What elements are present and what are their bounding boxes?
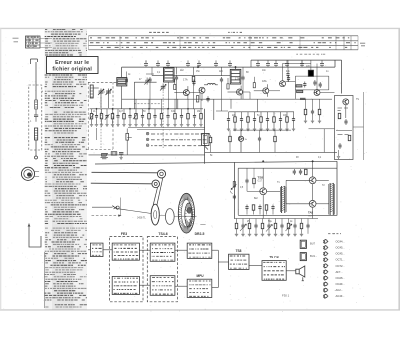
wire (312, 161, 314, 177)
resistor R5 (111, 113, 114, 119)
wire pointer line (120, 198, 122, 216)
capacitor C41 (313, 80, 316, 86)
preset arrow (286, 224, 292, 231)
ground (199, 125, 202, 127)
wire (295, 75, 328, 77)
svg-text:G17: G17 (258, 180, 263, 183)
ground (292, 129, 295, 131)
svg-text:BU1...: BU1... (310, 254, 317, 258)
resistor R7 (123, 113, 126, 119)
wire (246, 184, 248, 191)
sub-circuit labels (338, 108, 349, 110)
wire (328, 76, 330, 90)
wire (218, 261, 228, 263)
terminal node (35, 156, 38, 159)
capacitor C38 (279, 117, 282, 123)
node (129, 108, 130, 109)
capacitor C52 (233, 194, 236, 200)
resistor R19 (200, 113, 203, 119)
wire (242, 219, 244, 224)
block input (90, 243, 103, 256)
legend transistor OC72 (323, 263, 328, 268)
wire axle (160, 215, 166, 217)
spring loop (116, 206, 119, 209)
wire (212, 287, 219, 289)
svg-text:F30 1: F30 1 (282, 293, 290, 297)
tiny marks corner (13, 38, 19, 42)
wire (341, 60, 343, 93)
wire (117, 109, 119, 113)
wire (287, 60, 289, 72)
resistor Rb3 (253, 83, 255, 88)
capacitor C16 (228, 60, 232, 67)
wire (161, 109, 163, 113)
capacitor C16 (180, 113, 183, 119)
capacitor C23 (206, 96, 209, 102)
wire (95, 161, 337, 164)
ground (266, 129, 269, 131)
svg-text:OC44...: OC44... (336, 240, 346, 244)
svg-text:AC4F...: AC4F... (336, 294, 345, 298)
wire (40, 38, 52, 40)
pulley 2 (152, 180, 160, 188)
svg-text:OC45...: OC45... (336, 252, 346, 256)
wire (246, 211, 248, 215)
scan noise (90, 33, 367, 312)
ground (300, 234, 303, 236)
wire (312, 184, 314, 201)
capacitor C22 (320, 60, 324, 67)
node (112, 108, 113, 109)
wire (234, 112, 236, 117)
capacitor C28 (119, 153, 123, 158)
ground (116, 125, 119, 127)
capacitor C36 (266, 117, 269, 123)
wire (104, 91, 106, 93)
padding capacitor C29 (144, 78, 150, 85)
wire (240, 95, 242, 100)
capacitor C27 (192, 80, 195, 86)
capacitor C24 (148, 77, 151, 83)
wire (229, 130, 231, 136)
ground (160, 125, 163, 127)
wire (262, 219, 264, 224)
IF transformer IFT3 (230, 69, 241, 84)
wire (280, 112, 282, 117)
resistor R9 (135, 113, 138, 119)
resistor R35 (274, 136, 277, 142)
svg-text:OC71...: OC71... (336, 258, 346, 262)
wire (301, 219, 303, 224)
capacitor C25 (241, 75, 244, 81)
wire (176, 81, 178, 109)
page border top (0, 27, 400, 29)
capacitor C42 (319, 82, 322, 88)
legend jack (302, 277, 304, 281)
ground (233, 129, 236, 131)
wire (249, 265, 262, 267)
ground (274, 234, 277, 236)
wire (227, 78, 229, 84)
wire (133, 82, 135, 109)
wire (88, 249, 90, 251)
transistor TS1b (199, 87, 205, 93)
svg-text:FE3: FE3 (121, 232, 127, 236)
wire (129, 109, 131, 113)
resistor R1 (90, 113, 93, 119)
wire (266, 84, 268, 88)
resistor R33 (247, 117, 250, 123)
capacitor C11 (156, 60, 160, 67)
wire (199, 93, 201, 100)
wire (267, 190, 281, 192)
resistor R52 (253, 178, 256, 184)
wire (148, 99, 150, 109)
wire spring anchor (92, 206, 113, 208)
variable capacitor CV1 (98, 89, 104, 96)
wire (229, 111, 295, 113)
wire (91, 109, 93, 113)
resistor R60 (235, 223, 238, 229)
ground (153, 125, 156, 127)
transistor TS9 (343, 99, 349, 105)
wire (28, 224, 41, 248)
wire (254, 90, 263, 92)
resistor R13 (160, 113, 163, 119)
capacitor C43 (287, 76, 290, 82)
node blob (300, 98, 306, 100)
wire (35, 85, 37, 100)
wire (286, 179, 309, 181)
dial pulley wheel (151, 204, 159, 225)
oscillator coil L5 (204, 83, 218, 84)
ground (227, 129, 230, 131)
resistor R58 (265, 205, 268, 211)
capacitor C15 (214, 60, 218, 67)
wire (148, 109, 150, 113)
capacitor C81 (311, 109, 314, 115)
resistor Rb2 (227, 84, 229, 89)
wire (287, 78, 289, 82)
capacitor C65 (267, 223, 270, 229)
capacitor C55 (245, 205, 248, 211)
transistor TS7 (309, 177, 316, 184)
wire (353, 126, 364, 128)
block MPU (187, 279, 212, 297)
wire (253, 168, 255, 178)
wire (106, 109, 108, 113)
resistor R68 (287, 223, 290, 229)
wire (212, 249, 219, 251)
capacitor C59 (271, 205, 274, 211)
block FE3-b (112, 276, 139, 294)
wire (250, 60, 252, 67)
legend transistor OC45 (323, 251, 328, 256)
ground (267, 234, 270, 236)
wire (217, 250, 219, 287)
ground (119, 158, 122, 160)
wire (266, 211, 268, 215)
resistor R11 (148, 113, 151, 119)
small box module (308, 70, 313, 76)
capacitor C40 (303, 82, 306, 88)
wire (309, 128, 335, 130)
dashed module TS4-6 (147, 237, 177, 302)
node (167, 108, 168, 109)
capacitor C13 (186, 60, 190, 67)
wire second rail (152, 74, 230, 76)
wire (228, 91, 237, 93)
wire (285, 180, 287, 204)
ground (122, 125, 125, 127)
capacitor C61 (241, 223, 244, 229)
tuning knob (21, 167, 39, 180)
wire (100, 96, 102, 109)
ground (254, 234, 257, 236)
wire (139, 249, 150, 251)
component labels (296, 53, 325, 55)
transistor TS6 (260, 188, 267, 195)
wire (145, 60, 147, 62)
wire (221, 83, 223, 111)
transistor TS3 (263, 88, 269, 94)
wire (338, 150, 340, 156)
ground (241, 234, 244, 236)
connector socket BU1 (300, 240, 306, 248)
wire (200, 99, 202, 109)
wire (293, 112, 295, 117)
svg-text:MPU: MPU (196, 274, 204, 278)
wire (312, 207, 314, 218)
svg-text:50µ: 50µ (268, 221, 273, 223)
node (262, 161, 264, 163)
svg-text:TS 7 B: TS 7 B (269, 255, 279, 259)
node (148, 108, 149, 109)
wire (286, 270, 295, 272)
svg-text:9V: 9V (296, 157, 299, 159)
wire (121, 86, 123, 109)
wire (228, 112, 230, 117)
svg-text:AC2...: AC2... (336, 288, 344, 292)
block FE3-a (112, 243, 139, 260)
IF transformer IFT1 (117, 78, 127, 86)
revision table (26, 36, 41, 48)
wire (174, 99, 176, 109)
note box erreur (47, 57, 99, 74)
wire (301, 60, 303, 66)
wire (194, 109, 196, 113)
svg-text:TS: TS (356, 99, 359, 101)
ground (337, 157, 340, 159)
ground (293, 234, 296, 236)
capacitor C2 (95, 113, 98, 119)
wire (269, 90, 280, 92)
dashed module FE3 (110, 237, 143, 302)
preset arrow (266, 225, 272, 232)
capacitor C67 (280, 223, 283, 229)
resistor R56 (252, 205, 255, 211)
transformer T1 driver (280, 186, 286, 213)
wire (167, 109, 169, 113)
wire (187, 86, 189, 90)
wire axle through drum (178, 215, 197, 217)
resistor R33 (209, 137, 212, 143)
wire (247, 190, 260, 192)
wire (187, 109, 189, 113)
header strip text (90, 32, 356, 47)
wire (193, 67, 195, 75)
resistor R66 (274, 223, 277, 229)
resistor R45 (338, 113, 341, 119)
wire (275, 219, 277, 224)
capacitor C30 (227, 117, 230, 123)
wire (286, 203, 309, 205)
legend transistor AC4F (323, 294, 328, 299)
wire (363, 92, 365, 160)
transistor TS2 (237, 89, 243, 95)
wire (89, 154, 205, 156)
decoupling blob (125, 79, 128, 83)
legend transistor OC4F (323, 282, 328, 287)
wire (345, 105, 347, 118)
wire (230, 99, 232, 109)
wire (96, 109, 98, 113)
wire ground bus (128, 127, 205, 129)
wire (123, 109, 125, 113)
ground (90, 125, 93, 127)
antenna shield box (29, 85, 42, 150)
wire (168, 82, 170, 109)
wire (177, 99, 179, 109)
variable capacitor CV2 (106, 89, 112, 96)
capacitor C32 (240, 117, 243, 123)
tuning drum (178, 193, 194, 233)
wire (305, 99, 307, 109)
wire (135, 99, 137, 109)
node (312, 161, 314, 163)
diode D1 (238, 130, 243, 152)
svg-text:17A: 17A (183, 77, 188, 81)
ground (180, 125, 183, 127)
block TS8 (229, 254, 250, 269)
resistor R62 (248, 223, 251, 229)
svg-text:3428 TL: 3428 TL (137, 217, 146, 220)
wire (295, 89, 328, 91)
capacitor C8 (128, 113, 131, 119)
ground (311, 121, 314, 123)
wire (255, 219, 257, 224)
pulley 1 (157, 170, 165, 178)
ground (173, 125, 176, 127)
wire (267, 112, 269, 117)
wire (256, 99, 258, 112)
wire (282, 64, 284, 81)
wire (288, 219, 290, 224)
wire (262, 195, 264, 219)
ground (111, 125, 114, 127)
wire (137, 129, 205, 131)
block TS7B (262, 261, 286, 281)
capacitor C12 (153, 113, 156, 119)
capacitor C45 (344, 119, 347, 125)
wire (316, 64, 318, 90)
dial cord diagonal (157, 178, 163, 206)
node (96, 108, 97, 109)
legend transistor OC45 (323, 245, 328, 250)
transistor TS8 (309, 200, 316, 207)
wire (93, 87, 99, 89)
svg-text:Erreur sur le: Erreur sur le (55, 60, 89, 66)
resistor R35 (260, 117, 263, 123)
ground (235, 234, 238, 236)
wire (201, 93, 203, 101)
ground (253, 129, 256, 131)
ground (248, 234, 251, 236)
wire (233, 129, 291, 131)
wire (268, 219, 270, 224)
wire (249, 219, 251, 224)
capacitor C18 (266, 60, 270, 67)
wire (242, 67, 244, 75)
coil L2 (35, 128, 38, 140)
wire (294, 76, 296, 99)
capacitor C20 (285, 60, 289, 67)
ground (285, 129, 288, 131)
capacitor C_ant (34, 109, 38, 122)
ground (134, 125, 137, 127)
capacitor C51 (299, 169, 302, 175)
resistor R46 (348, 135, 351, 141)
wire (246, 168, 248, 178)
page border right (398, 28, 400, 310)
capacitor C33 (258, 136, 261, 142)
ground (193, 125, 196, 127)
value labels (93, 66, 359, 223)
wire (181, 109, 183, 113)
connector socket BU2 (300, 253, 306, 261)
page border bottom (0, 309, 400, 311)
capacitor C21 (175, 75, 178, 81)
ground (304, 121, 307, 123)
ground (280, 234, 283, 236)
ground (128, 125, 131, 127)
wire (286, 112, 288, 117)
wire (237, 168, 239, 215)
ground (141, 125, 144, 127)
resistor R3 (100, 113, 103, 119)
transistor TS4 (280, 81, 286, 87)
wire upper rail (251, 59, 342, 61)
ground (100, 125, 103, 127)
wire (266, 93, 268, 97)
wire (112, 109, 114, 113)
ground (147, 125, 150, 127)
wire (281, 219, 283, 224)
coil L3 (90, 85, 93, 98)
wire (253, 211, 255, 215)
capacitor C46 (338, 143, 341, 149)
resistor Rb1 (174, 84, 176, 89)
resistor R41 (297, 90, 303, 92)
transformer T2 output (329, 183, 335, 216)
capacitor C34 (253, 117, 256, 123)
coil L1 (35, 100, 38, 109)
switch S1 (101, 153, 108, 158)
wire (233, 162, 235, 218)
wire (310, 60, 312, 70)
wire (193, 82, 195, 109)
ground (166, 125, 169, 127)
